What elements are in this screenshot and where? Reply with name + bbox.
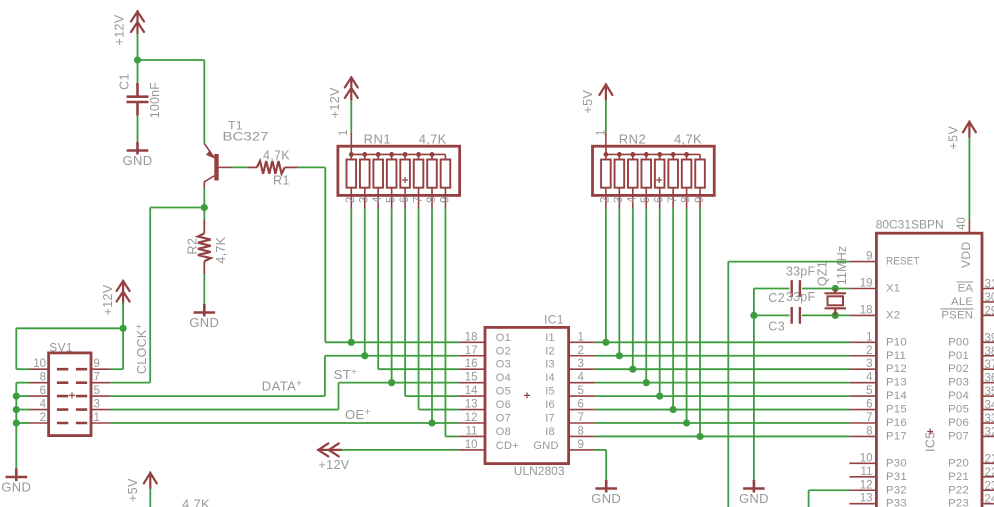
wire P32 vertical [808, 490, 810, 507]
svg-text:P15: P15 [886, 404, 907, 416]
IC1 pin 9 stub [569, 449, 595, 451]
svg-text:C1: C1 [118, 73, 132, 90]
wire IC1 pin 1 to P10 [595, 341, 850, 343]
supply +12V symbol [131, 11, 144, 34]
junction [629, 366, 636, 373]
IC1 pin 10 stub [459, 449, 485, 451]
wire RN1 pin 8 column [431, 208, 433, 423]
IC1 pin 15 stub [459, 382, 485, 384]
svg-text:P33: P33 [886, 498, 907, 507]
IC5 pin 37 stub [982, 368, 994, 370]
wire ST from SV1 pin 3 [110, 409, 338, 411]
svg-text:ALE: ALE [951, 296, 973, 308]
svg-text:+5V: +5V [947, 126, 961, 150]
IC5 pin 2 stub [849, 355, 876, 357]
svg-text:I6: I6 [545, 399, 555, 411]
svg-text:8: 8 [40, 372, 46, 384]
IC5 pin 22 stub [982, 476, 994, 478]
junction [832, 285, 839, 292]
wire X1 row left [754, 288, 790, 290]
wire to IC1 pin 14 [405, 395, 459, 397]
IC5 pin 31 stub [982, 288, 994, 290]
svg-text:8: 8 [866, 425, 872, 437]
svg-text:3: 3 [94, 399, 100, 411]
IC5 pin 3 stub [849, 368, 876, 370]
svg-text:O4: O4 [496, 372, 511, 384]
IC5 pin 4 stub [849, 382, 876, 384]
svg-text:O6: O6 [496, 399, 511, 411]
ground symbol [595, 480, 617, 493]
junction [428, 419, 435, 426]
wire RN1 pin 2 column [350, 208, 352, 342]
IC IC5 80C31 body [876, 233, 982, 507]
RN1 resistor element 2 [364, 154, 366, 208]
svg-text:22: 22 [985, 467, 994, 479]
wire RN2 pin 6 column [659, 208, 661, 396]
svg-text:P20: P20 [948, 457, 969, 469]
svg-text:1: 1 [94, 412, 100, 424]
svg-text:P10: P10 [886, 336, 907, 348]
RN1 resistor element 8 [444, 154, 446, 208]
IC5 pin 35 stub [982, 395, 994, 397]
SV1 pin 3 stub [91, 409, 110, 411]
RN2 resistor element 2 [618, 154, 620, 208]
svg-text:31: 31 [985, 279, 994, 291]
svg-text:I8: I8 [545, 426, 555, 438]
svg-text:CLOCK+: CLOCK+ [134, 324, 149, 374]
svg-text:+5V: +5V [126, 478, 140, 502]
svg-text:R2: R2 [186, 238, 200, 255]
svg-text:BC327: BC327 [223, 130, 269, 144]
svg-text:3: 3 [613, 197, 625, 203]
svg-text:GND: GND [739, 491, 769, 506]
IC1 pin 8 stub [569, 435, 595, 437]
svg-text:O5: O5 [496, 386, 511, 398]
wire [15, 328, 17, 369]
svg-text:O2: O2 [496, 345, 511, 357]
SV1 contacts row 3 [57, 395, 87, 398]
svg-text:6: 6 [654, 197, 666, 203]
svg-text:7: 7 [412, 197, 424, 203]
ground symbol [6, 469, 28, 482]
wire [203, 208, 205, 221]
wire RN1 pin 9 column [444, 208, 446, 436]
SV1 pin 4 stub [29, 409, 49, 411]
wire [203, 275, 205, 305]
IC5 pin 1 stub [849, 341, 876, 343]
wire [16, 368, 29, 370]
svg-text:5: 5 [640, 197, 652, 203]
RN2 resistor element 3 [632, 154, 634, 208]
node SV1 +12V junction [120, 325, 127, 332]
svg-text:O7: O7 [496, 413, 511, 425]
wire RESET [728, 261, 849, 263]
ground symbol [194, 304, 216, 317]
svg-text:100nF: 100nF [148, 82, 162, 119]
wire DATA to IC1 pin 17 [325, 355, 459, 357]
svg-text:P01: P01 [948, 350, 969, 362]
wire RN1 pin 7 column [418, 208, 420, 409]
SV1 contacts row 4 [57, 408, 87, 411]
svg-text:29: 29 [985, 305, 994, 317]
svg-text:I5: I5 [545, 386, 555, 398]
svg-text:7: 7 [667, 197, 679, 203]
RN1 bus junction 4 [389, 152, 394, 157]
wire CLOCK vertical [149, 208, 151, 383]
IC1 pin 13 stub [459, 409, 485, 411]
svg-text:13: 13 [860, 493, 873, 505]
wire X2 row left [754, 314, 790, 316]
resistor R2 [198, 220, 211, 275]
svg-text:39: 39 [985, 332, 994, 344]
SV1 pin 9 stub [91, 368, 110, 370]
svg-text:O8: O8 [496, 426, 511, 438]
svg-text:5: 5 [866, 385, 872, 397]
wire [203, 188, 205, 208]
svg-text:GND: GND [189, 315, 219, 330]
wire RN2 pin 8 column [686, 208, 688, 423]
svg-text:18: 18 [860, 304, 873, 316]
svg-text:8: 8 [680, 197, 692, 203]
svg-text:+12V: +12V [101, 284, 115, 315]
connector SV1 [49, 353, 91, 436]
wire OE from SV1 pin 1 to IC1 pin 12 [110, 422, 458, 424]
wire IC1 pin 3 to P12 [595, 368, 850, 370]
svg-text:11: 11 [861, 466, 873, 478]
svg-text:9: 9 [94, 358, 100, 370]
RN2 resistor element 4 [645, 154, 647, 208]
wire [16, 409, 29, 411]
wire RN2 pin 7 column [672, 208, 674, 409]
wire DATA from SV1 pin 5 [110, 395, 325, 397]
svg-text:4: 4 [627, 196, 639, 203]
svg-text:I1: I1 [545, 332, 555, 344]
svg-text:17: 17 [465, 345, 478, 357]
wire IC1 pin 8 to P17 [595, 435, 850, 437]
svg-text:I2: I2 [545, 345, 555, 357]
junction [643, 379, 650, 386]
capacitor C1 [127, 83, 149, 116]
wire [16, 382, 29, 384]
RN1 resistor element 5 [404, 154, 406, 208]
wire [16, 327, 123, 329]
svg-text:P14: P14 [886, 390, 907, 402]
SV1 pin 8 stub [29, 382, 49, 384]
svg-text:40: 40 [956, 217, 968, 230]
IC5 pin 23 stub [982, 489, 994, 491]
svg-text:33pF: 33pF [786, 264, 815, 278]
wire IC1 pin 2 to P11 [595, 355, 850, 357]
SV1 pin 1 stub [91, 422, 110, 424]
resistor R1 [248, 161, 298, 174]
svg-text:P17: P17 [886, 430, 907, 442]
svg-text:1: 1 [866, 331, 872, 343]
svg-text:15: 15 [465, 372, 478, 384]
junction [683, 419, 690, 426]
svg-text:P32: P32 [886, 484, 907, 496]
RN1 resistor element 7 [431, 154, 433, 208]
IC1 pin 5 stub [569, 395, 595, 397]
IC5 pin 10 stub [849, 462, 876, 464]
svg-text:SV1: SV1 [49, 340, 73, 354]
RN2 origin cross [656, 177, 662, 183]
svg-text:P23: P23 [948, 498, 969, 507]
wire to IC1 pin 16 [378, 368, 459, 370]
IC U1 ULN2803 body [485, 327, 569, 463]
svg-text:10: 10 [860, 452, 873, 464]
svg-text:2: 2 [600, 197, 612, 203]
svg-text:5: 5 [385, 197, 397, 203]
svg-text:38: 38 [985, 346, 994, 358]
svg-text:+5V: +5V [581, 90, 595, 114]
wire [137, 116, 139, 143]
IC5 pin 39 stub [982, 341, 994, 343]
wire [137, 60, 139, 83]
IC5 pin 29 stub [982, 314, 994, 316]
IC1 pin 16 stub [459, 368, 485, 370]
svg-text:1: 1 [578, 331, 584, 343]
junction [670, 406, 677, 413]
svg-text:34: 34 [985, 400, 994, 412]
RN2 pin 1 lead [605, 133, 607, 155]
svg-text:3: 3 [578, 358, 584, 370]
RN1 resistor element 4 [391, 154, 393, 208]
RN2 bus junction 7 [684, 152, 689, 157]
svg-text:7: 7 [866, 412, 872, 424]
svg-text:P07: P07 [948, 430, 969, 442]
svg-text:ULN2803: ULN2803 [514, 464, 565, 478]
svg-text:24: 24 [985, 494, 994, 506]
IC5 pin 21 stub [982, 462, 994, 464]
svg-text:GND: GND [123, 153, 153, 168]
wire to IC1 pin 11 [445, 435, 458, 437]
wire [968, 137, 970, 220]
svg-text:2: 2 [578, 345, 584, 357]
svg-text:RN1: RN1 [364, 132, 392, 147]
svg-text:C2: C2 [768, 291, 785, 305]
IC5 pin 30 stub [982, 301, 994, 303]
RN2 bus junction 1 [604, 152, 609, 157]
junction [602, 339, 609, 346]
RN1 resistor element 6 [418, 154, 420, 208]
svg-text:1: 1 [338, 130, 350, 136]
RN2 bus junction 4 [644, 152, 649, 157]
supply +12V symbol [345, 77, 358, 100]
svg-text:CD+: CD+ [496, 440, 519, 452]
svg-text:P05: P05 [948, 404, 969, 416]
svg-text:2: 2 [345, 197, 357, 203]
crystal QZ1 [825, 289, 847, 316]
svg-text:I3: I3 [545, 359, 555, 371]
wire RN1 pin 4 column [377, 208, 379, 369]
node CLOCK junction [201, 204, 208, 211]
RN1 bus junction 2 [362, 152, 367, 157]
supply +12V symbol left-pointing [318, 443, 342, 456]
svg-text:6: 6 [40, 385, 46, 397]
svg-text:30: 30 [985, 292, 994, 304]
svg-text:2: 2 [866, 345, 872, 357]
junction [696, 433, 703, 440]
svg-text:P31: P31 [886, 471, 907, 483]
IC1 pin 2 stub [569, 355, 595, 357]
IC5 pin 7 stub [849, 422, 876, 424]
SV1 pin 5 stub [91, 395, 110, 397]
supply +12V symbol [117, 281, 130, 304]
RN2 resistor element 8 [699, 154, 701, 208]
junction [616, 352, 623, 359]
RN2 bus junction 2 [617, 152, 622, 157]
svg-text:4,7K: 4,7K [214, 236, 228, 263]
junction [13, 406, 20, 413]
IC1 pin 14 stub [459, 395, 485, 397]
svg-text:21: 21 [985, 453, 994, 465]
IC5 pin 13 stub [849, 503, 876, 505]
IC5 pin 33 stub [982, 422, 994, 424]
wire [122, 328, 124, 369]
wire +12V to IC1 CD pin [341, 449, 458, 451]
svg-text:VDD: VDD [959, 241, 973, 268]
svg-text:P16: P16 [886, 417, 907, 429]
RN2 bus junction 5 [657, 152, 662, 157]
svg-text:3: 3 [866, 358, 872, 370]
IC5 pin 19 stub [849, 288, 876, 290]
svg-text:4,7K: 4,7K [263, 149, 290, 163]
svg-text:4: 4 [866, 372, 873, 384]
svg-text:+12V: +12V [328, 87, 342, 118]
IC1 pin 17 stub [459, 355, 485, 357]
junction [361, 352, 368, 359]
svg-text:P00: P00 [948, 336, 969, 348]
svg-text:6: 6 [866, 399, 872, 411]
RN2 resistor element 6 [672, 154, 674, 208]
SV1 pin 7 stub [91, 382, 110, 384]
svg-text:PSEN: PSEN [941, 309, 973, 321]
junction [13, 393, 20, 400]
IC1 pin 4 stub [569, 382, 595, 384]
RN1 pin 1 lead [350, 133, 352, 155]
svg-text:RESET: RESET [886, 256, 920, 268]
SV1 contacts row 5 [57, 422, 87, 425]
IC1 pin 11 stub [459, 435, 485, 437]
capacitor C2 [792, 280, 800, 297]
svg-text:8: 8 [426, 197, 438, 203]
RN2 resistor element 7 [686, 154, 688, 208]
wire IC1 pin 9 to GND [595, 449, 607, 451]
wire DATA vertical [324, 356, 326, 396]
RN1 bus junction 6 [416, 152, 421, 157]
svg-text:11: 11 [466, 425, 478, 437]
wire ST to IC1 pin 15 [339, 382, 459, 384]
IC5 pin 11 stub [849, 476, 876, 478]
RN2 bus junction 3 [630, 152, 635, 157]
wire RN2 pin 9 column [699, 208, 701, 436]
RN1 resistor element 3 [377, 154, 379, 208]
svg-text:GND: GND [1, 480, 31, 495]
IC1 pin 12 stub [459, 422, 485, 424]
SV1 pin 6 stub [29, 395, 49, 397]
svg-text:I4: I4 [545, 372, 555, 384]
svg-text:3: 3 [359, 197, 371, 203]
wire [231, 166, 248, 168]
IC1 origin cross [524, 392, 530, 398]
svg-text:32: 32 [985, 426, 994, 438]
svg-text:P06: P06 [948, 417, 969, 429]
svg-text:12: 12 [860, 479, 873, 491]
svg-text:EA: EA [958, 283, 974, 295]
svg-text:7: 7 [94, 372, 100, 384]
IC5 pin 9 stub [849, 261, 876, 263]
SV1 contacts row 2 [57, 381, 87, 384]
svg-text:4,7K: 4,7K [182, 497, 210, 507]
svg-text:6: 6 [578, 399, 584, 411]
RN2 bus junction 6 [671, 152, 676, 157]
svg-text:16: 16 [465, 358, 478, 370]
svg-text:9: 9 [866, 251, 872, 263]
svg-text:P03: P03 [948, 377, 969, 389]
IC5 pin 32 stub [982, 435, 994, 437]
IC5 origin cross [927, 429, 933, 435]
wire [149, 488, 151, 507]
RN2 common bus [606, 153, 700, 155]
svg-text:I7: I7 [545, 413, 555, 425]
supply +5V symbol [144, 472, 157, 488]
RN1 bus junction 1 [349, 152, 354, 157]
wire IC1 pin 6 to P15 [595, 409, 850, 411]
svg-text:13: 13 [465, 399, 478, 411]
wire X2 row right [802, 314, 849, 316]
IC1 pin 1 stub [569, 341, 595, 343]
RN1 bus junction 5 [403, 152, 408, 157]
junction [388, 379, 395, 386]
svg-text:4,7K: 4,7K [674, 132, 702, 147]
node +12V junction [134, 56, 141, 63]
IC1 pin 7 stub [569, 422, 595, 424]
svg-text:5: 5 [94, 385, 100, 397]
svg-text:9: 9 [694, 197, 706, 203]
svg-text:P11: P11 [886, 350, 906, 362]
svg-text:X2: X2 [886, 309, 900, 321]
svg-text:37: 37 [985, 359, 994, 371]
capacitor C3 [792, 307, 800, 324]
IC5 pin 40 stub [968, 220, 970, 233]
junction [13, 419, 20, 426]
RN1 bus junction 3 [376, 152, 381, 157]
wire [150, 207, 204, 209]
wire [16, 422, 29, 424]
SV1 contacts row 1 [57, 368, 87, 371]
supply +5V symbol [599, 84, 612, 100]
wire [16, 395, 29, 397]
RN1 common bus [351, 153, 445, 155]
ground symbol [743, 480, 765, 493]
wire [203, 60, 205, 144]
RN2 resistor element 1 [605, 154, 607, 208]
svg-text:35: 35 [985, 386, 994, 398]
svg-text:4: 4 [40, 399, 47, 411]
svg-text:12: 12 [465, 412, 478, 424]
IC5 pin 38 stub [982, 355, 994, 357]
svg-text:10: 10 [33, 358, 46, 370]
wire RN1 pin 3 column [364, 208, 366, 355]
svg-text:GND: GND [533, 440, 558, 452]
svg-text:36: 36 [985, 373, 994, 385]
svg-text:+12V: +12V [318, 458, 349, 472]
wire IC1 pin 4 to P13 [595, 382, 850, 384]
svg-text:R1: R1 [273, 174, 290, 188]
IC1 pin 3 stub [569, 368, 595, 370]
svg-text:33pF: 33pF [786, 290, 815, 304]
svg-text:9: 9 [578, 439, 584, 451]
